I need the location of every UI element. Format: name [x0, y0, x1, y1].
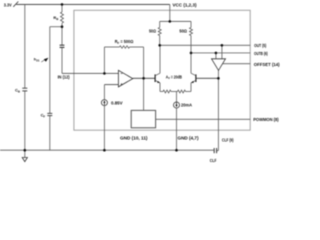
svg-text:50Ω: 50Ω — [179, 28, 187, 33]
svg-text:h21: h21 — [34, 57, 40, 63]
svg-text:CF: CF — [41, 113, 46, 119]
svg-text:OUTB (6): OUTB (6) — [254, 51, 268, 56]
svg-text:3.3V: 3.3V — [4, 3, 12, 8]
svg-text:GND (10, 11): GND (10, 11) — [120, 135, 148, 140]
svg-text:POWMON (8): POWMON (8) — [253, 117, 279, 122]
svg-text:CLF: CLF — [210, 158, 217, 163]
svg-text:VCC (1,2,3): VCC (1,2,3) — [173, 3, 198, 8]
svg-text:CB: CB — [15, 88, 21, 94]
svg-text:GND (4,7): GND (4,7) — [178, 135, 200, 140]
svg-text:50Ω: 50Ω — [149, 28, 157, 33]
svg-text:RF = 500Ω: RF = 500Ω — [115, 39, 134, 45]
svg-text:OUT (5): OUT (5) — [254, 43, 267, 48]
svg-text:20mA: 20mA — [181, 103, 192, 108]
svg-text:IN (12): IN (12) — [58, 74, 71, 79]
svg-text:OFFSET (14): OFFSET (14) — [254, 62, 280, 67]
svg-text:CLF (9): CLF (9) — [222, 137, 234, 142]
svg-text:0.85V: 0.85V — [111, 101, 123, 106]
svg-text:RB: RB — [53, 15, 59, 21]
